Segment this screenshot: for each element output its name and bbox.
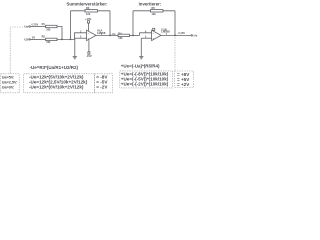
dashed leader from output node to result box [174, 38, 176, 71]
svg-text:R1: R1 [42, 22, 46, 26]
svg-text:0,75V: 0,75V [32, 22, 39, 26]
svg-text:-Ue=12k*(0V/10k+2V/12k): -Ue=12k*(0V/10k+2V/12k) [29, 85, 84, 90]
feedback wire up from summing node [70, 11, 72, 40]
feedback wire down to output [109, 11, 111, 36]
wire R4 to op-amp 2 [129, 34, 139, 36]
wire non-inverting input U1B [141, 37, 151, 39]
svg-text:R2: R2 [42, 35, 46, 39]
wire summing junction [57, 38, 75, 40]
-15V supply flag [88, 40, 90, 52]
dashed box summing formulas [24, 74, 95, 93]
svg-text:2,15V: 2,15V [178, 31, 185, 35]
output wire U1B [161, 34, 191, 36]
svg-text:2V: 2V [32, 35, 35, 39]
svg-text:Ua=0V:: Ua=0V: [2, 86, 15, 90]
wire Ua to R1 [30, 26, 45, 28]
output terminal Ue [191, 35, 193, 37]
svg-text:+Ue=(-Ua)*(R5/R4): +Ue=(-Ua)*(R5/R4) [121, 64, 160, 69]
dashed legend box Ua values [1, 74, 20, 93]
svg-text:10k: 10k [152, 12, 157, 16]
wire to inverting input U1B [140, 33, 152, 36]
dashed leader from input Ua to legend box [10, 27, 23, 74]
dashed box inverter formulas [120, 71, 173, 88]
svg-text:›Ue: ›Ue [193, 33, 198, 37]
dashed box inverter results [175, 71, 194, 88]
ground symbol [73, 56, 77, 58]
node dot output 2 [174, 35, 176, 37]
junction node dot branch1 [61, 39, 63, 41]
feedback top wire 2 [133, 10, 175, 12]
V+ flag U1B [153, 28, 155, 30]
node dot output/feedback [109, 35, 111, 37]
feedback wire 2 down to output [174, 11, 176, 36]
svg-text:Ua=2,5V:: Ua=2,5V: [2, 80, 18, 84]
svg-text:10k: 10k [46, 27, 51, 31]
wire U2 to R2 [30, 38, 45, 40]
svg-text:Summierverstärker:: Summierverstärker: [67, 1, 109, 6]
wire to inverting input [75, 33, 87, 40]
ground stem at op-amp U1A [74, 38, 76, 56]
svg-text:12k: 12k [86, 12, 91, 16]
svg-text:Ua=5V:: Ua=5V: [2, 75, 15, 79]
svg-text:= +2V: = +2V [177, 82, 190, 87]
svg-text:-Ue=R3*(Ua/R1+U2/R2): -Ue=R3*(Ua/R1+U2/R2) [30, 65, 79, 70]
svg-text:12k: 12k [46, 40, 51, 44]
junction node dot feedback [70, 39, 72, 41]
svg-text:-15V: -15V [86, 54, 92, 58]
junction dot feedback 2 [132, 35, 134, 37]
output wire U1A [96, 34, 118, 36]
op-amp U1B [152, 30, 161, 40]
ground stem at op-amp U1B [140, 38, 142, 56]
dashed box summing results [95, 74, 113, 93]
svg-text:U2: U2 [24, 38, 28, 42]
svg-text:-Ua: -Ua [111, 32, 116, 36]
wire R1 to junction [57, 27, 62, 40]
ground symbol 2 [139, 56, 143, 58]
svg-text:= -2V: = -2V [96, 85, 108, 90]
svg-text:Ua: Ua [24, 25, 28, 29]
svg-text:10k: 10k [118, 36, 123, 40]
svg-text:Invertierer:: Invertierer: [139, 1, 162, 6]
feedback top wire to R3 [71, 10, 111, 12]
op-amp U1A [87, 30, 96, 40]
svg-text:+Ue=(-(-2V))*(10k/10k): +Ue=(-(-2V))*(10k/10k) [121, 82, 169, 87]
wire non-inverting input [75, 37, 87, 39]
feedback wire 2 up [132, 11, 134, 36]
